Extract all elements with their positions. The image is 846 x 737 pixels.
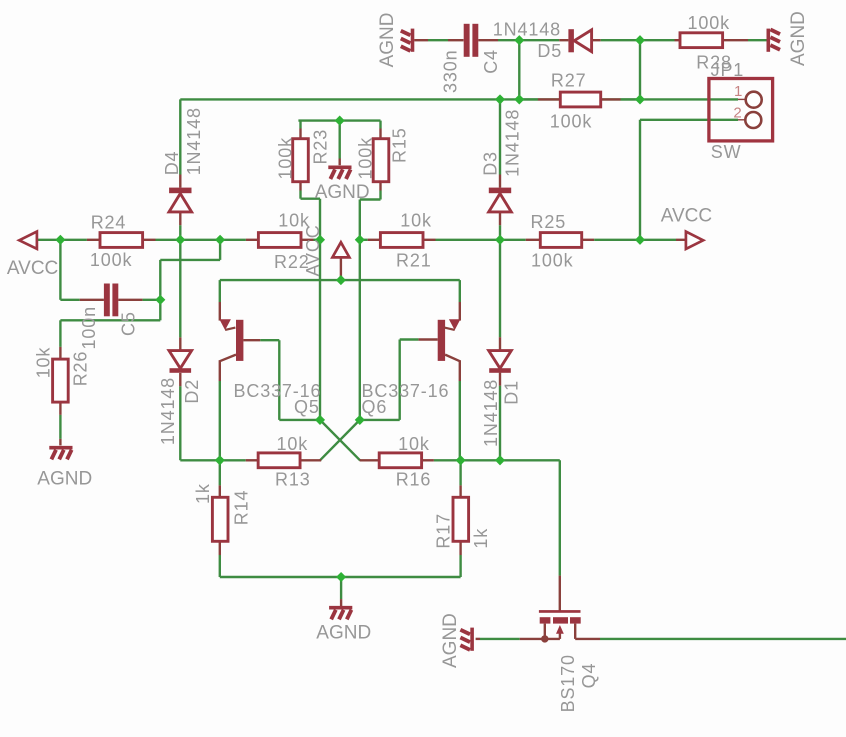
svg-text:100k: 100k [90, 250, 133, 270]
svg-text:100k: 100k [355, 137, 375, 180]
svg-text:D2: D2 [182, 379, 202, 404]
svg-text:AGND: AGND [788, 11, 809, 66]
svg-text:R15: R15 [389, 127, 409, 163]
svg-text:D4: D4 [162, 151, 182, 176]
svg-text:R14: R14 [232, 490, 252, 526]
svg-text:AVCC: AVCC [661, 206, 712, 227]
svg-text:SW: SW [711, 142, 742, 162]
svg-text:1N4148: 1N4148 [493, 20, 561, 40]
svg-text:Q6: Q6 [362, 397, 388, 417]
svg-text:R23: R23 [311, 129, 331, 165]
svg-text:10k: 10k [398, 434, 430, 454]
svg-text:JP1: JP1 [711, 60, 745, 80]
svg-text:10k: 10k [34, 347, 54, 379]
svg-text:1N4148: 1N4148 [184, 107, 204, 175]
svg-text:1: 1 [734, 83, 742, 100]
svg-text:AVCC: AVCC [7, 258, 58, 279]
svg-text:R21: R21 [396, 250, 432, 270]
svg-text:R25: R25 [531, 212, 567, 232]
svg-text:Q5: Q5 [294, 397, 320, 417]
svg-text:1k: 1k [193, 483, 213, 504]
svg-text:100n: 100n [79, 306, 99, 349]
svg-text:1k: 1k [471, 528, 491, 549]
svg-text:R27: R27 [551, 71, 587, 91]
svg-text:R16: R16 [396, 470, 432, 490]
svg-text:330n: 330n [441, 50, 461, 93]
svg-text:R17: R17 [434, 513, 454, 549]
svg-text:R24: R24 [91, 212, 127, 232]
svg-text:100k: 100k [550, 111, 593, 131]
svg-text:10k: 10k [400, 211, 432, 231]
svg-text:AVCC: AVCC [303, 224, 323, 276]
svg-text:AGND: AGND [316, 623, 371, 644]
svg-text:100k: 100k [688, 13, 731, 33]
svg-text:2: 2 [733, 105, 741, 122]
svg-text:R13: R13 [275, 470, 311, 490]
svg-text:BS170: BS170 [558, 654, 578, 712]
svg-text:1N4148: 1N4148 [503, 109, 523, 177]
svg-text:1N4148: 1N4148 [481, 379, 501, 447]
svg-text:AGND: AGND [440, 613, 461, 668]
svg-text:10k: 10k [277, 434, 309, 454]
svg-text:1N4148: 1N4148 [158, 377, 178, 445]
svg-text:C4: C4 [481, 49, 501, 74]
svg-text:D3: D3 [481, 151, 501, 176]
svg-text:AGND: AGND [37, 468, 92, 489]
svg-text:100k: 100k [276, 137, 296, 180]
svg-text:D1: D1 [501, 380, 521, 405]
svg-text:C5: C5 [118, 311, 138, 336]
svg-text:R26: R26 [71, 351, 91, 387]
svg-text:Q4: Q4 [579, 663, 599, 689]
svg-text:AGND: AGND [315, 182, 370, 203]
svg-text:AGND: AGND [377, 12, 398, 67]
svg-text:100k: 100k [531, 251, 574, 271]
svg-text:D5: D5 [537, 41, 562, 61]
